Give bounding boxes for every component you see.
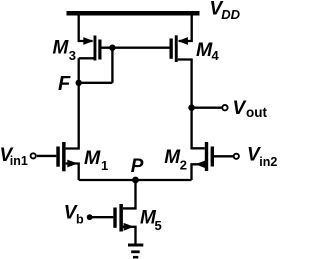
svg-text:3: 3 (69, 48, 76, 63)
svg-text:M: M (196, 39, 213, 61)
svg-text:P: P (131, 156, 144, 177)
wire P to M5 drain (123, 180, 136, 208)
node dot gate-drain junction of M3 (109, 45, 115, 51)
transistor M5 (NMOS tail current source) (113, 204, 134, 232)
terminal Vin1 open circle (31, 153, 36, 158)
wire M3 drain stub (79, 57, 94, 59)
svg-text:DD: DD (221, 7, 240, 22)
svg-text:5: 5 (155, 218, 162, 233)
wire M5 source to ground (123, 227, 136, 244)
svg-text:in1: in1 (10, 154, 28, 168)
transistor M4 (PMOS) (170, 35, 188, 62)
terminal Vout open circle (222, 105, 227, 110)
wire Vin2 gate lead (214, 155, 233, 157)
wire M1 source down to tail (66, 164, 79, 181)
ground symbol (128, 244, 143, 259)
terminal Vin2 open circle (234, 154, 239, 159)
wire Vout tap (192, 107, 222, 109)
VDD power rail (67, 11, 200, 16)
svg-text:V: V (233, 98, 247, 119)
wire M3 source to VDD (79, 16, 93, 42)
svg-text:M: M (164, 147, 181, 168)
wire diode connection vertical (111, 48, 113, 83)
svg-text:1: 1 (101, 158, 108, 173)
transistor M1 (NMOS input left) (56, 142, 78, 171)
wire M4 drain to Vout to M2 drain (178, 60, 205, 149)
wire M4 source to VDD (179, 16, 192, 42)
wire tail bus P (79, 179, 192, 181)
node Vb dot (87, 214, 93, 220)
wire gate bus M3-M4 (102, 47, 170, 49)
wire diode connection horizontal to F (79, 82, 113, 84)
svg-text:4: 4 (212, 48, 220, 63)
transistor M2 (NMOS input right) (195, 142, 214, 171)
wire M3 drain to F to M1 drain (66, 58, 79, 148)
svg-text:M: M (53, 38, 70, 59)
wire M2 source down to tail (192, 164, 205, 180)
node Vout dot (188, 104, 195, 111)
svg-text:M: M (84, 147, 101, 169)
wire Vin1 gate lead (37, 155, 57, 157)
svg-text:2: 2 (180, 158, 187, 173)
svg-text:in2: in2 (259, 155, 277, 169)
svg-text:b: b (76, 213, 84, 227)
transistor M3 (PMOS diode-connected) (83, 36, 101, 61)
svg-text:out: out (246, 105, 267, 120)
wire Vb gate lead (92, 216, 113, 218)
node P dot (132, 177, 139, 184)
svg-text:F: F (58, 73, 71, 95)
node F dot (76, 80, 82, 86)
